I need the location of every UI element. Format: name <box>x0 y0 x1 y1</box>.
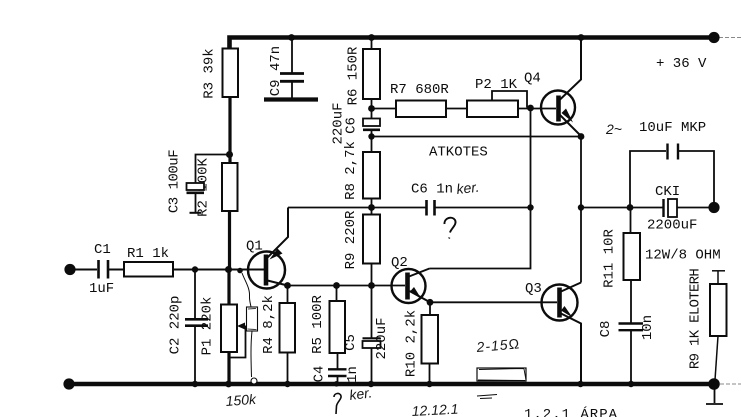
wire R5 to C4 <box>337 353 339 369</box>
svg-text:R6 150R: R6 150R <box>346 46 362 105</box>
svg-text:C8: C8 <box>598 321 614 338</box>
wire node to C6 1n <box>372 207 426 209</box>
Q4 collector (up) <box>560 40 582 101</box>
resistor R7 <box>372 108 397 110</box>
svg-text:R11 10R: R11 10R <box>602 228 618 287</box>
capacitor CKI 2200uF <box>662 199 664 217</box>
handwritten ker. at bottom <box>334 393 341 414</box>
svg-text:R10 2,2k: R10 2,2k <box>404 310 420 377</box>
node R2/P1 <box>225 266 232 273</box>
resistor R9 220R <box>363 215 380 264</box>
sketch underline marks <box>477 395 497 399</box>
svg-text:C1: C1 <box>94 242 111 258</box>
svg-text:2~: 2~ <box>605 121 622 137</box>
handwritten question mark <box>444 218 455 239</box>
svg-text:220uF: 220uF <box>374 317 390 359</box>
svg-text:R1 1k: R1 1k <box>127 246 169 262</box>
svg-text:150k: 150k <box>225 391 257 409</box>
svg-text:ker.: ker. <box>348 384 373 403</box>
output terminal dot <box>708 202 719 213</box>
capacitor C4 <box>328 369 347 376</box>
Q1 collector (down) <box>268 281 288 286</box>
wire input to C1 <box>75 269 97 271</box>
wire output bus to CKI <box>581 207 663 209</box>
svg-text:R7 680R: R7 680R <box>390 82 449 98</box>
wire Q1 emitter to R8/R9 node <box>288 207 372 209</box>
wire Q2 emitter to Q3 base <box>430 301 557 303</box>
resistor R10 <box>429 302 431 315</box>
node Q2 emitter <box>427 299 434 306</box>
wire node down to Q2 collector <box>430 108 531 269</box>
svg-text:R9 1K ELOTERH: R9 1K ELOTERH <box>688 269 704 369</box>
svg-text:Q1: Q1 <box>246 239 263 255</box>
resistor R9 1K output <box>712 270 725 272</box>
P2 wiper <box>492 91 527 108</box>
wire C1 to R1 <box>109 269 124 271</box>
node R8/R9 <box>368 204 375 211</box>
sketched resistor box <box>477 368 526 381</box>
svg-text:C5: C5 <box>343 334 359 351</box>
wire R2 to input node <box>228 211 231 270</box>
input terminal dot <box>64 264 75 275</box>
potentiometer P1 <box>221 305 237 353</box>
annotation sketched resistor 150k <box>247 307 258 331</box>
Q1 emitter (up) <box>268 208 289 258</box>
svg-text:C2 220p: C2 220p <box>168 296 184 355</box>
svg-text:1n: 1n <box>345 366 361 383</box>
svg-text:R4 8,2k: R4 8,2k <box>261 295 277 354</box>
wire Q1 collector bus <box>288 285 406 287</box>
node R5 <box>333 282 340 289</box>
terminal dot bottom-left <box>63 378 74 389</box>
node R9/C5 <box>368 282 375 289</box>
wire C6 1n to P2 node line <box>436 207 531 209</box>
node R11 / MKP loop <box>627 204 634 211</box>
svg-text:R8 2,7k: R8 2,7k <box>343 141 359 200</box>
node R2 top / C3 <box>226 151 233 158</box>
C9 ground bar <box>264 97 318 101</box>
terminal dot bottom-right <box>708 378 720 390</box>
capacitor C6 1n <box>427 200 435 216</box>
wire P2 to Q4 base <box>518 108 556 110</box>
Q4 emitter (down) <box>560 115 582 137</box>
svg-text:ATKOTES: ATKOTES <box>429 145 488 161</box>
transistor Q3 <box>542 285 578 321</box>
resistor R1 <box>124 262 173 277</box>
potentiometer P2 <box>467 101 518 118</box>
wire C2 to rail <box>194 326 196 384</box>
capacitor C8 <box>619 324 644 331</box>
resistor R3 <box>223 49 239 98</box>
node C2 <box>192 266 198 272</box>
svg-text:12.12.1: 12.12.1 <box>411 401 458 417</box>
annotation lead to rail <box>251 331 252 377</box>
wire P1 to rail <box>227 352 230 384</box>
annotation open circle on rail <box>251 378 257 384</box>
resistor R8 <box>363 152 380 199</box>
top +36V rail <box>230 38 717 49</box>
resistor R6 <box>371 39 373 49</box>
transistor Q4 <box>541 91 575 125</box>
svg-text:C6 1n: C6 1n <box>411 182 453 198</box>
svg-text:10n: 10n <box>640 315 656 340</box>
svg-text:C9 47n: C9 47n <box>268 46 284 96</box>
Q2 emitter (down) <box>410 291 431 302</box>
svg-text:R5 100R: R5 100R <box>310 294 326 353</box>
wire R1 to Q1 base <box>173 269 264 271</box>
svg-text:+ 36 V: + 36 V <box>656 56 707 72</box>
capacitor C6 220uF <box>371 99 373 119</box>
svg-text:C3 100uF: C3 100uF <box>167 150 183 213</box>
resistor R2 <box>222 163 238 211</box>
node annotation <box>237 268 243 274</box>
capacitor C2 <box>185 319 208 325</box>
svg-text:P1 220k: P1 220k <box>200 297 216 356</box>
top rail faint continuation <box>719 37 741 39</box>
svg-text:2200uF: 2200uF <box>647 218 697 234</box>
svg-text:10uF MKP: 10uF MKP <box>639 120 706 136</box>
resistor R5 <box>336 286 338 302</box>
bottom rail faint continuation <box>720 383 741 385</box>
terminal dot top-right <box>708 32 719 43</box>
svg-text:R9 220R: R9 220R <box>343 210 359 269</box>
capacitor C3 <box>187 183 205 190</box>
Q3 collector (up) <box>561 283 581 292</box>
capacitor C5 <box>371 286 373 338</box>
capacitor C3 wire <box>196 155 230 184</box>
transistor Q1 <box>248 252 285 289</box>
Q2 collector (up) <box>409 269 430 277</box>
wire node to P1 <box>227 270 230 305</box>
svg-text:ker.: ker. <box>456 179 480 197</box>
svg-text:CKI: CKI <box>655 184 680 200</box>
svg-text:R3 39k: R3 39k <box>202 48 218 98</box>
node Q4 emitter <box>578 133 585 140</box>
transistor Q2 <box>392 269 426 303</box>
capacitor C9 <box>291 40 293 73</box>
svg-text:C4: C4 <box>312 366 328 383</box>
svg-text:Q2: Q2 <box>391 255 408 271</box>
Q3 emitter (down) <box>561 314 581 385</box>
svg-text:1uF: 1uF <box>89 281 114 297</box>
capacitor C1 <box>99 260 109 279</box>
svg-text:Q4: Q4 <box>524 71 541 87</box>
loop 10uF MKP <box>630 151 666 208</box>
svg-text:12W/8 OHM: 12W/8 OHM <box>645 248 721 264</box>
resistor R11 <box>630 208 632 234</box>
node C6 bottom / Q4 emitter wire <box>368 133 374 139</box>
wire R3 to R2 <box>228 97 231 163</box>
svg-text:C6: C6 <box>344 117 360 134</box>
ground stub below bottom-right terminal <box>706 389 723 404</box>
wire Q4 emitter down to Q3 collector <box>580 137 582 283</box>
P1 wiper <box>229 326 246 358</box>
wire node to C2 <box>194 270 196 319</box>
node output bus <box>578 204 584 210</box>
svg-text:1.2.1 ÁRPA: 1.2.1 ÁRPA <box>524 405 618 417</box>
node on P2 drop line <box>527 204 533 210</box>
svg-text:Q3: Q3 <box>525 281 542 297</box>
wire Q4 emitter bus <box>372 136 582 138</box>
node P2/Q4 base <box>527 105 534 112</box>
wire R7 to P2 <box>446 108 467 110</box>
resistor R4 <box>287 286 289 304</box>
annotation squiggle from Q1 base <box>242 273 251 307</box>
bottom rail <box>68 382 716 387</box>
